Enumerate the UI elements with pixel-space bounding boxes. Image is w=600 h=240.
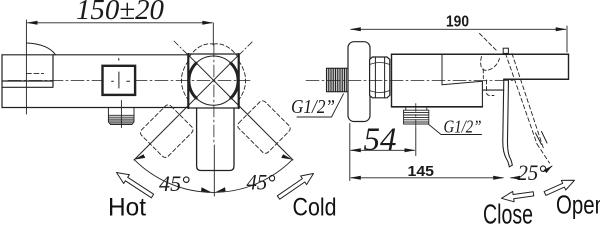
dimension arc 45/45 bbox=[134, 160, 292, 193]
X diagonal to lower-right bbox=[189, 55, 294, 160]
spout bottom bbox=[504, 78, 569, 80]
dashed handle rotated right 45 bbox=[236, 99, 292, 155]
joint circle bbox=[189, 56, 238, 105]
dashed vertical near step bbox=[483, 69, 494, 96]
svg-text:Hot: Hot bbox=[108, 194, 146, 222]
hidden pipe corner inside block bbox=[26, 72, 43, 74]
internal diagonal bbox=[442, 81, 482, 85]
Open arrow bbox=[544, 180, 574, 195]
escutcheon plate bbox=[348, 42, 370, 122]
dashed dome arcs on top bbox=[189, 44, 214, 57]
dash-dot stubs above corners bbox=[174, 41, 253, 55]
extension line plate bbox=[349, 124, 351, 181]
hex nut bbox=[370, 57, 390, 98]
wall thread nipple bbox=[327, 68, 349, 91]
vertical centreline through square bbox=[118, 59, 120, 61]
bold right arc of circle bbox=[231, 63, 238, 98]
dashed handle rotated left 45 bbox=[139, 103, 195, 159]
Cold arrow bbox=[277, 174, 313, 200]
dashed lever open position bbox=[506, 54, 538, 145]
bold left arc of circle bbox=[189, 63, 196, 98]
handle grip bbox=[197, 108, 234, 171]
svg-text:45°: 45° bbox=[247, 170, 276, 195]
svg-text:190: 190 bbox=[446, 14, 469, 31]
left connector block bbox=[2, 55, 53, 108]
svg-text:G1/2”: G1/2” bbox=[444, 117, 482, 137]
dashed lever tip solid marks bbox=[536, 132, 548, 145]
svg-text:Cold: Cold bbox=[293, 194, 337, 222]
shower outlet below body bbox=[404, 107, 429, 124]
svg-text:150±20: 150±20 bbox=[76, 0, 164, 26]
body block bbox=[391, 54, 393, 107]
horizontal centreline right view bbox=[306, 80, 516, 82]
dashed cap under spout top bbox=[481, 57, 500, 71]
solid lever bbox=[503, 79, 513, 167]
lever pin (up position) bbox=[503, 48, 508, 53]
re-draw square centre marks bbox=[112, 72, 130, 88]
dashed side bump right bbox=[239, 61, 246, 100]
mixer bar top edge bbox=[2, 54, 188, 56]
svg-text:54: 54 bbox=[364, 122, 397, 158]
outlet centreline bbox=[415, 104, 417, 129]
spout right edge bbox=[568, 54, 570, 79]
svg-text:Open: Open bbox=[556, 190, 600, 220]
dimension line 150±20 bbox=[28, 22, 213, 24]
handle joint block bbox=[187, 54, 189, 108]
threaded outlet below square bbox=[108, 108, 134, 124]
X diagonal to lower-left bbox=[134, 55, 239, 160]
cartridge divider bbox=[441, 54, 443, 84]
handle vertical centreline bbox=[213, 45, 215, 145]
svg-text:Close: Close bbox=[483, 199, 533, 226]
mixer bar bottom edge bbox=[2, 107, 188, 109]
Hot arrow bbox=[117, 173, 154, 198]
Close arrow bbox=[502, 191, 534, 201]
dashed side bump left bbox=[181, 61, 188, 100]
extension line right (handle centre) bbox=[212, 23, 214, 45]
dashed lever above spout bbox=[480, 34, 498, 52]
step under spout bbox=[482, 81, 503, 107]
svg-text:25°: 25° bbox=[518, 160, 547, 185]
extension line right spout bbox=[566, 26, 568, 52]
extension line left (pipe centre) bbox=[25, 20, 27, 114]
square escutcheon bbox=[103, 66, 136, 95]
arc arrowheads bbox=[134, 154, 145, 159]
svg-text:G1/2”: G1/2” bbox=[291, 96, 335, 118]
pipe elbow arc bbox=[27, 43, 56, 55]
dimension line 190 bbox=[351, 28, 566, 30]
svg-text:45°: 45° bbox=[159, 171, 190, 196]
horizontal centreline bbox=[8, 80, 250, 82]
outlet centreline bbox=[120, 101, 122, 128]
